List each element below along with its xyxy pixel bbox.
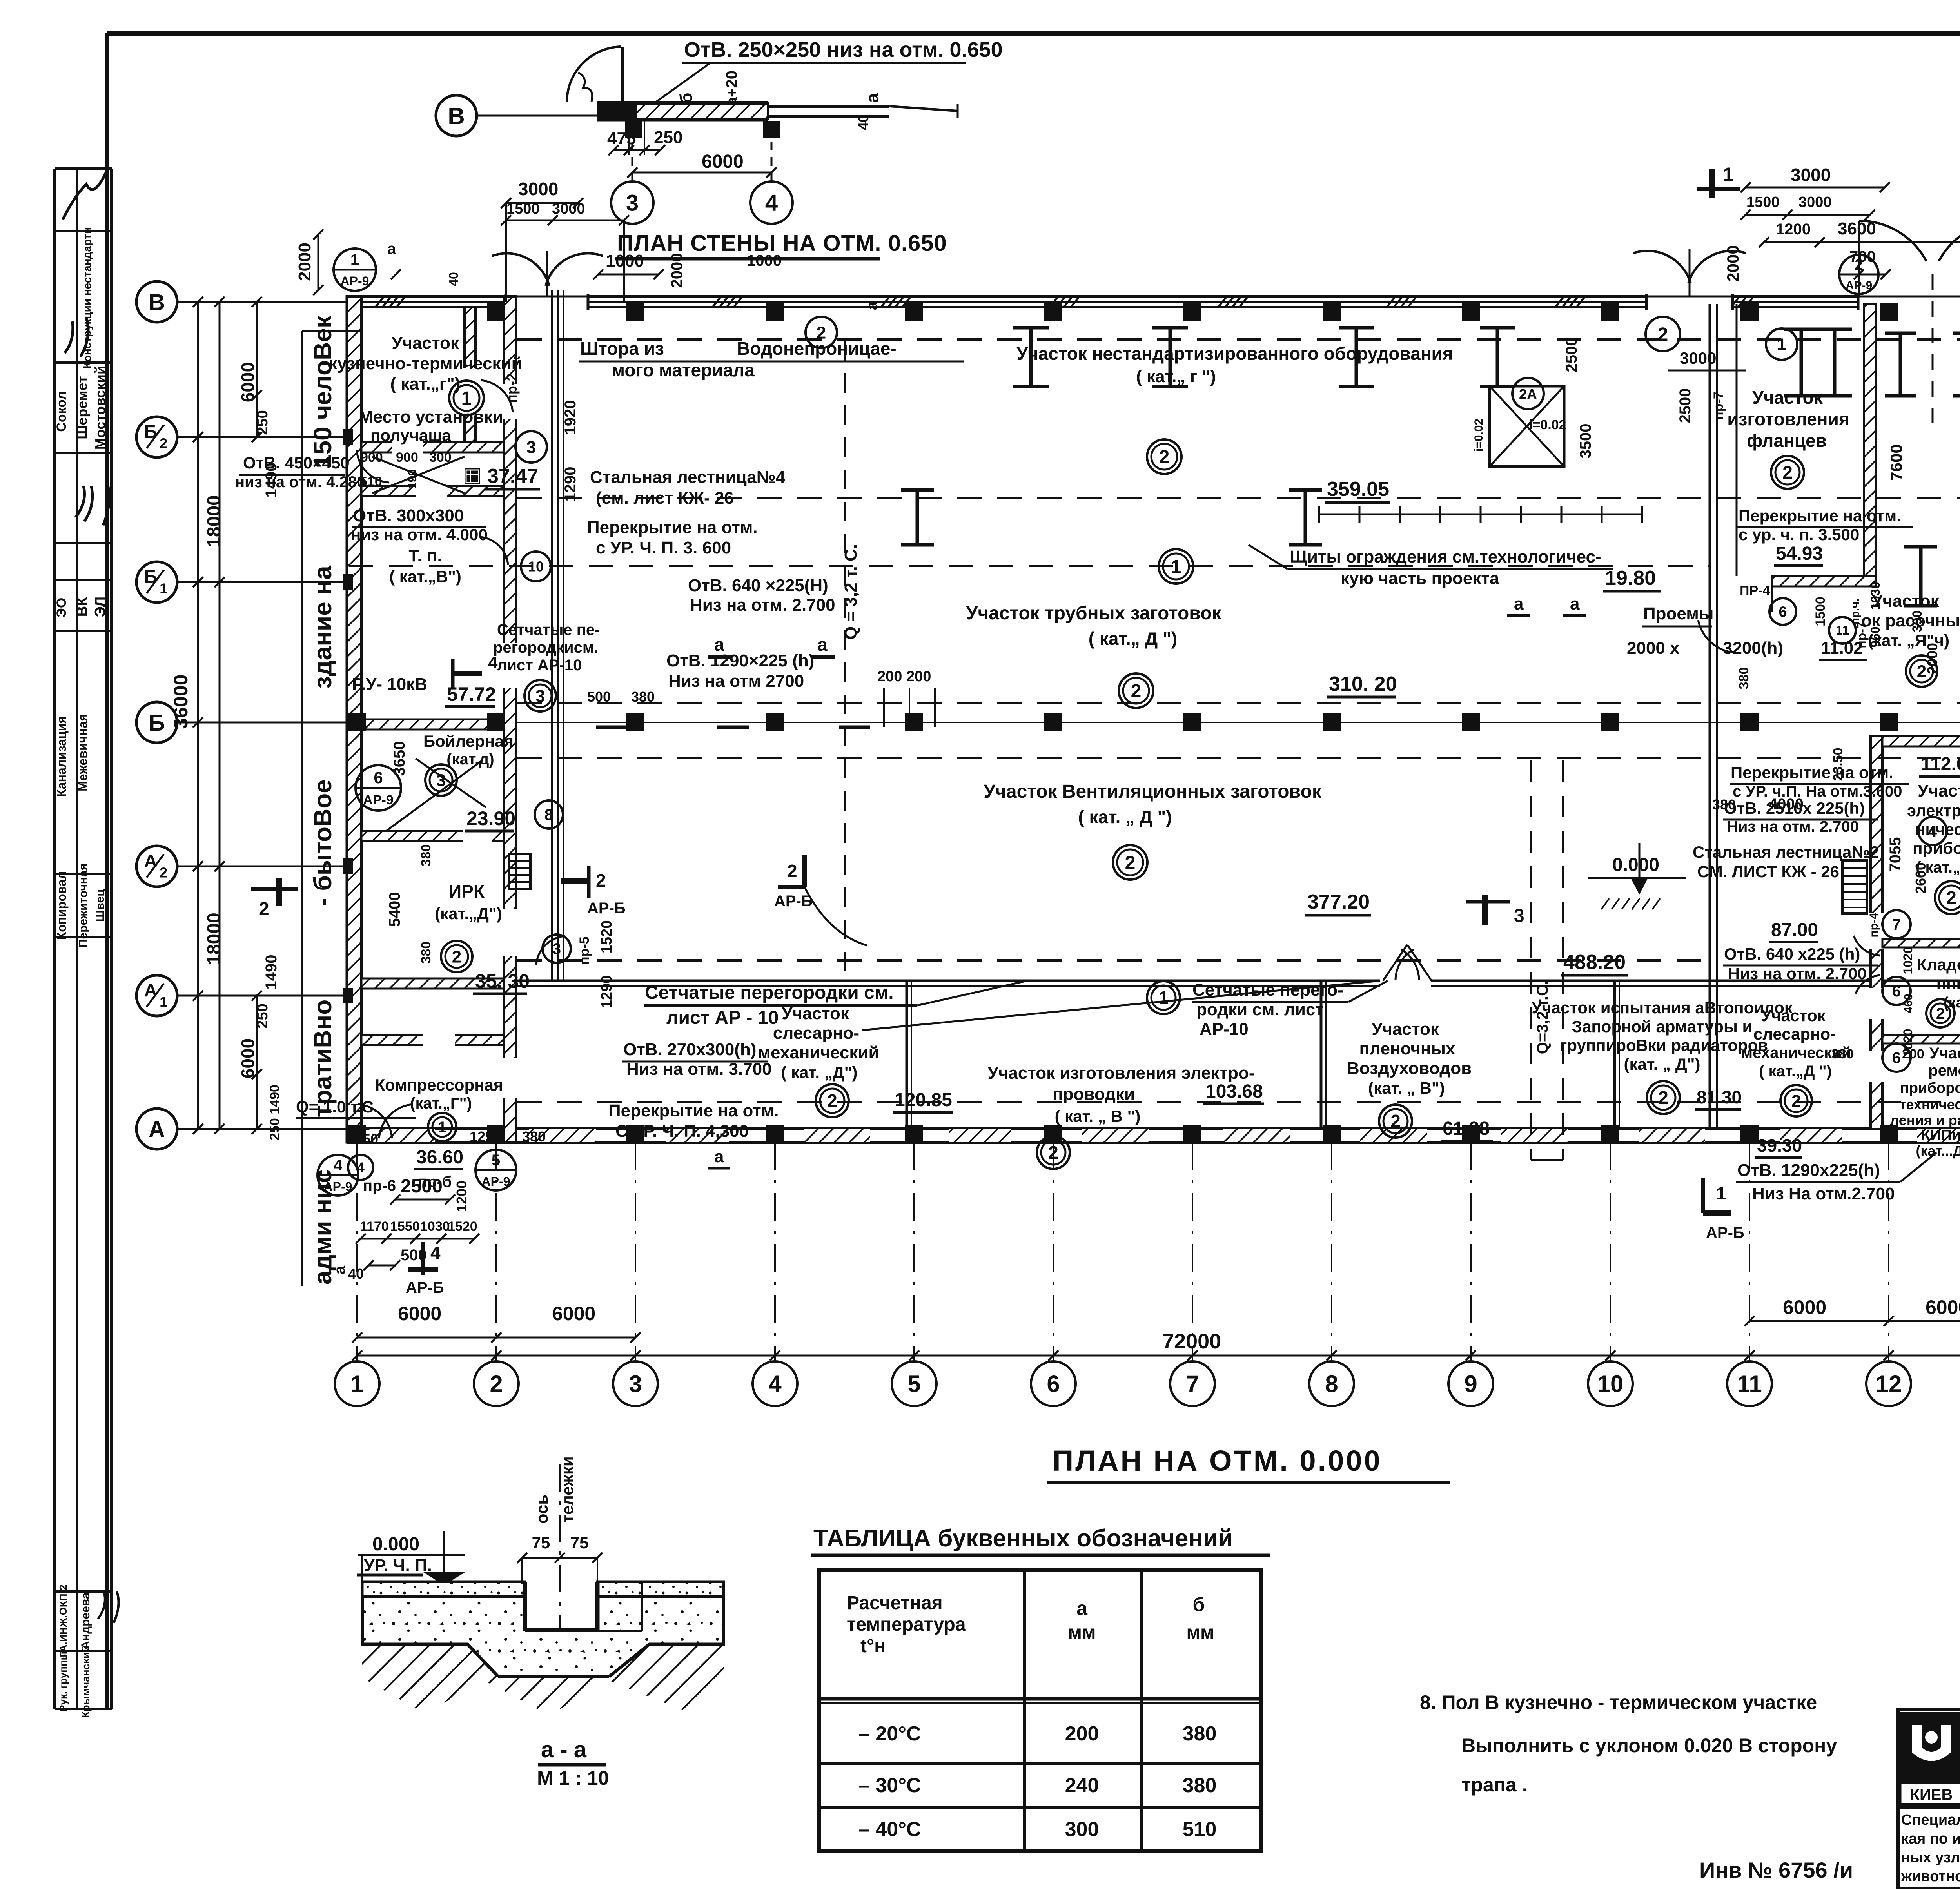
svg-text:лист АР - 10: лист АР - 10 [666, 1007, 779, 1028]
steel ladder 1 [509, 854, 530, 889]
svg-text:Участок Вентиляционных заг: Участок Вентиляционных заготовок [984, 781, 1322, 802]
svg-text:мм: мм [1186, 1622, 1214, 1643]
svg-text:8. Пол В кузнечно - термиче: 8. Пол В кузнечно - термическом участке [1420, 1691, 1817, 1713]
svg-text:6000: 6000 [1926, 1296, 1960, 1318]
svg-text:Б: Б [144, 566, 157, 587]
drain slope square 2А [1490, 386, 1564, 466]
logo КИЕВ [1900, 1712, 1960, 1782]
svg-text:АР-Б: АР-Б [406, 1279, 444, 1296]
svg-text:6: 6 [1892, 1049, 1901, 1067]
svg-text:Компрессорная: Компрессорная [375, 1076, 503, 1094]
svg-text:3: 3 [436, 771, 446, 790]
svg-text:2000: 2000 [668, 253, 686, 288]
svg-text:6000: 6000 [1783, 1296, 1826, 1318]
svg-text:7: 7 [1892, 916, 1901, 933]
svg-text:19.80: 19.80 [1605, 567, 1656, 590]
svg-text:а: а [864, 301, 881, 310]
svg-text:ПР-4: ПР-4 [1740, 583, 1770, 598]
svg-text:1: 1 [1171, 557, 1181, 577]
svg-text:3: 3 [626, 190, 639, 216]
svg-text:87.00: 87.00 [1771, 920, 1818, 940]
svg-text:Б: Б [144, 421, 157, 442]
svg-text:9: 9 [1464, 1371, 1477, 1397]
svg-text:АР-Б: АР-Б [1706, 1224, 1744, 1241]
svg-text:АР-Б: АР-Б [587, 900, 626, 917]
svg-text:ления и разрежения: ления и разрежения [1890, 1112, 1960, 1128]
svg-text:150 челоВек: 150 челоВек [309, 315, 337, 468]
svg-text:2: 2 [1658, 324, 1668, 345]
svg-text:380: 380 [631, 689, 655, 705]
svg-text:Конструкции нестандартн: Конструкции нестандартн [81, 227, 93, 369]
svg-text:а+20: а+20 [723, 71, 740, 106]
svg-text:3000: 3000 [1798, 194, 1832, 210]
centerline ось тележки [559, 1464, 561, 1702]
svg-text:3600: 3600 [1838, 219, 1876, 238]
svg-text:2А: 2А [1519, 386, 1537, 402]
grid circle 8 [1309, 1361, 1354, 1406]
svg-text:Копировал: Копировал [54, 871, 69, 940]
svg-text:Мостовский: Мостовский [92, 366, 108, 450]
svg-text:пр-4: пр-4 [1867, 913, 1880, 937]
svg-text:11: 11 [1737, 1371, 1762, 1397]
left stamp column [53, 169, 56, 1709]
svg-text:приборов тепло: приборов тепло [1900, 1080, 1960, 1096]
svg-text:7600: 7600 [1887, 444, 1906, 481]
left dimension chains [197, 302, 199, 1129]
svg-text:1: 1 [160, 994, 167, 1010]
svg-text:Выполнить с уклоном 0.020: Выполнить с уклоном 0.020 В сторону [1461, 1735, 1837, 1757]
svg-text:1290: 1290 [599, 975, 615, 1009]
svg-text:с УР. Ч. П. 3. 600: с УР. Ч. П. 3. 600 [596, 538, 731, 557]
svg-text:112.60: 112.60 [1921, 754, 1960, 775]
steel ladder 2 [1842, 860, 1867, 913]
svg-text:ЭЛ: ЭЛ [92, 597, 109, 617]
svg-text:2: 2 [160, 436, 167, 452]
svg-text:а: а [1514, 594, 1524, 613]
svg-text:900: 900 [396, 450, 418, 465]
svg-text:500: 500 [587, 689, 611, 705]
svg-text:i=0.02: i=0.02 [1472, 419, 1485, 452]
svg-text:1: 1 [461, 388, 472, 409]
svg-text:120.85: 120.85 [895, 1090, 952, 1111]
svg-text:Участок трубных заготовок: Участок трубных заготовок [966, 603, 1221, 624]
svg-text:температура: температура [847, 1614, 966, 1635]
bottom rooms mesh partition [516, 980, 1960, 982]
svg-text:ных узлов и заготовок для: ных узлов и заготовок для [1901, 1849, 1960, 1866]
svg-text:а - а: а - а [541, 1737, 587, 1762]
svg-text:а: а [1076, 1597, 1088, 1619]
svg-text:б: б [677, 93, 696, 103]
svg-text:В: В [448, 103, 465, 129]
svg-text:2: 2 [490, 1371, 503, 1397]
svg-text:2: 2 [596, 870, 606, 891]
svg-text:Щиты ограждения см.технологиче: Щиты ограждения см.технологичес- [1290, 547, 1601, 566]
svg-text:механический: механический [758, 1043, 879, 1062]
svg-text:ремонта: ремонта [1928, 1062, 1960, 1079]
svg-text:250: 250 [654, 128, 682, 147]
svg-text:ПЛАН СТЕНЫ НА ОТМ. 0.650: ПЛАН СТЕНЫ НА ОТМ. 0.650 [617, 230, 947, 256]
admin horizontal partitions [361, 442, 504, 452]
right rooms walls [1871, 736, 1882, 1129]
svg-text:Запорной арматуры и: Запорной арматуры и [1572, 1017, 1753, 1036]
svg-text:Канализация: Канализация [54, 716, 69, 797]
svg-text:Штора из: Штора из [580, 338, 664, 359]
svg-text:технических даВ.: технических даВ. [1899, 1096, 1960, 1112]
svg-text:Проемы: Проемы [1643, 604, 1713, 623]
svg-text:1: 1 [1723, 163, 1734, 185]
svg-text:1550: 1550 [390, 1219, 420, 1234]
axis circle А/1 [136, 975, 177, 1016]
svg-text:Сетчатые перего-: Сетчатые перего- [1192, 980, 1343, 1000]
svg-text:6: 6 [1047, 1371, 1060, 1397]
svg-text:Низ на отм. 2.700: Низ на отм. 2.700 [1728, 964, 1867, 983]
svg-text:Андреева: Андреева [79, 1592, 92, 1649]
svg-text:1030: 1030 [420, 1219, 450, 1234]
svg-text:пр-7: пр-7 [1711, 392, 1726, 420]
svg-text:приборов: приборов [1913, 839, 1960, 857]
grid circle 6 [1031, 1361, 1076, 1406]
svg-text:2: 2 [259, 899, 269, 920]
svg-text:2000: 2000 [1924, 643, 1940, 674]
svg-text:7: 7 [1186, 1371, 1199, 1397]
svg-text:4: 4 [765, 190, 778, 216]
svg-text:ОтВ. 300х300: ОтВ. 300х300 [353, 506, 464, 525]
svg-text:а: а [714, 634, 724, 655]
svg-text:2: 2 [1159, 447, 1170, 468]
svg-text:380: 380 [419, 942, 434, 964]
svg-text:1200: 1200 [1776, 221, 1811, 238]
svg-text:3: 3 [526, 437, 536, 457]
svg-text:5: 5 [492, 1152, 500, 1169]
svg-text:а: а [714, 1147, 724, 1166]
svg-text:10: 10 [528, 559, 544, 575]
svg-text:36000: 36000 [170, 674, 192, 729]
svg-text:Участок нестандартизированно: Участок нестандартизированного оборудова… [1016, 343, 1453, 364]
axis circle В (top detail) [436, 95, 477, 136]
svg-text:( кат.„Д "): ( кат.„Д ") [1759, 1063, 1832, 1080]
svg-text:4: 4 [488, 653, 498, 672]
left wall [347, 296, 361, 1142]
building outer walls [347, 295, 1960, 298]
flange room walls [1864, 304, 1876, 576]
svg-text:61.88: 61.88 [1443, 1118, 1490, 1139]
svg-text:мм: мм [1068, 1622, 1096, 1643]
sheet frame [107, 31, 1960, 36]
svg-text:Шеремет: Шеремет [74, 376, 90, 439]
svg-text:3500: 3500 [1577, 424, 1594, 459]
svg-text:АР-9: АР-9 [363, 793, 393, 807]
svg-text:фланцев: фланцев [1747, 430, 1827, 451]
svg-text:2: 2 [1125, 853, 1136, 873]
svg-text:(кат...Д"): (кат...Д") [1916, 1143, 1960, 1159]
svg-text:1500: 1500 [1746, 194, 1780, 210]
svg-text:М 1 : 10: М 1 : 10 [537, 1767, 609, 1789]
svg-text:Низ на отм 2700: Низ на отм 2700 [668, 671, 804, 691]
svg-text:ЭО: ЭО [54, 598, 69, 618]
svg-text:1200: 1200 [454, 1181, 470, 1212]
svg-text:1: 1 [1158, 987, 1169, 1008]
svg-text:( кат.„ Д "): ( кат.„ Д ") [1089, 628, 1177, 649]
svg-text:(кат„Д"): (кат„Д") [1944, 994, 1960, 1011]
svg-text:здание на: здание на [309, 566, 337, 689]
svg-text:Участок: Участок [1929, 1045, 1960, 1062]
svg-text:18000: 18000 [204, 495, 225, 547]
svg-text:КИЕВ: КИЕВ [1910, 1786, 1953, 1804]
svg-text:– 20°С: – 20°С [858, 1722, 921, 1745]
svg-text:6000: 6000 [238, 1038, 258, 1078]
svg-text:ОтВ. 640 х225 (h): ОтВ. 640 х225 (h) [1724, 945, 1860, 963]
svg-text:23.50: 23.50 [1831, 748, 1846, 781]
svg-text:проводки: проводки [1053, 1085, 1135, 1104]
svg-text:Низ на отм. 2.700: Низ на отм. 2.700 [1727, 818, 1859, 835]
svg-text:3: 3 [1514, 905, 1524, 926]
svg-text:Специализированная мастерс-: Специализированная мастерс- [1901, 1812, 1960, 1828]
svg-text:животноводческих ферм с: животноводческих ферм с [1901, 1868, 1960, 1885]
corridor wall [1709, 304, 1711, 1129]
axis circle Б/2 [136, 417, 177, 457]
axis circle А/2 [136, 846, 177, 887]
svg-text:с ур. ч. п. 3.500: с ур. ч. п. 3.500 [1739, 525, 1859, 544]
svg-text:300: 300 [1065, 1818, 1099, 1841]
svg-text:слесарно-: слесарно- [773, 1023, 859, 1043]
svg-text:Сетчатые перегородки см.: Сетчатые перегородки см. [645, 982, 894, 1003]
svg-text:ОтВ. 2510х 225(h): ОтВ. 2510х 225(h) [1724, 799, 1865, 817]
svg-text:510: 510 [1183, 1818, 1217, 1841]
svg-text:3200(h): 3200(h) [1723, 639, 1783, 658]
svg-text:Перекрытие на отм.: Перекрытие на отм. [587, 518, 758, 537]
svg-text:6000: 6000 [398, 1303, 441, 1325]
svg-text:( кат. „Д"): ( кат. „Д") [781, 1063, 857, 1082]
svg-text:Стальная лестница№2: Стальная лестница№2 [1693, 843, 1879, 861]
svg-text:кая по изготовлению монтаж: кая по изготовлению монтаж- [1901, 1831, 1960, 1847]
svg-text:(см. лист КЖ- 26: (см. лист КЖ- 26 [596, 488, 734, 508]
svg-text:Перекрытие на отм.: Перекрытие на отм. [1731, 763, 1893, 782]
svg-text:1000: 1000 [747, 252, 782, 269]
svg-text:Стальная лестница№4: Стальная лестница№4 [590, 468, 786, 487]
svg-text:КИПиЯ: КИПиЯ [1921, 1127, 1960, 1143]
svg-text:2: 2 [1855, 257, 1863, 273]
svg-text:54.93: 54.93 [1776, 543, 1823, 564]
svg-text:ИРК: ИРК [448, 881, 485, 902]
svg-text:кузнечно-термический: кузнечно-термический [328, 354, 522, 373]
svg-text:39.30: 39.30 [1757, 1135, 1802, 1156]
grid circle 12 [1866, 1361, 1911, 1406]
svg-text:изготовления: изготовления [1727, 409, 1849, 429]
svg-text:18000: 18000 [204, 913, 225, 965]
svg-text:ОтВ. 270х300(h): ОтВ. 270х300(h) [623, 1040, 756, 1059]
svg-text:11: 11 [1836, 623, 1849, 637]
svg-text:УР. Ч. П.: УР. Ч. П. [364, 1556, 432, 1575]
svg-text:5400: 5400 [386, 892, 403, 927]
svg-text:(кат.д): (кат.д) [446, 751, 494, 768]
svg-text:6000: 6000 [238, 362, 258, 402]
svg-text:Сетчатые пе-: Сетчатые пе- [497, 621, 600, 639]
svg-text:40: 40 [446, 272, 461, 286]
svg-text:ТАБЛИЦА буквенных обозначени: ТАБЛИЦА буквенных обозначений [813, 1525, 1233, 1552]
svg-text:пр.ч.: пр.ч. [1849, 599, 1861, 624]
svg-text:6000: 6000 [702, 151, 744, 172]
svg-text:2: 2 [817, 323, 826, 342]
svg-text:250: 250 [254, 1003, 271, 1028]
svg-text:ОтВ. 1290х225(h): ОтВ. 1290х225(h) [1737, 1161, 1880, 1180]
svg-text:8: 8 [544, 806, 553, 824]
svg-text:с УР. ч.П. На отм.3.600: с УР. ч.П. На отм.3.600 [1733, 783, 1902, 800]
svg-text:1250: 1250 [470, 1129, 501, 1145]
svg-text:– 40°С: – 40°С [858, 1818, 921, 1841]
axis circle Б [136, 702, 177, 743]
svg-text:Кладовая: Кладовая [1916, 955, 1960, 974]
svg-text:Место установки: Место установки [359, 407, 503, 426]
svg-text:1250: 1250 [347, 1131, 378, 1147]
svg-text:2000 х: 2000 х [1627, 639, 1680, 658]
axis Б line [516, 722, 1960, 723]
svg-text:390: 390 [1910, 610, 1925, 633]
svg-text:2: 2 [787, 861, 797, 881]
svg-text:3000: 3000 [518, 179, 558, 199]
svg-text:ОтВ. 640 ×225(Н): ОтВ. 640 ×225(Н) [688, 576, 828, 595]
svg-text:пр-6: пр-6 [363, 1177, 396, 1194]
svg-text:пр-б: пр-б [418, 1173, 452, 1190]
svg-text:12: 12 [1876, 1371, 1902, 1397]
svg-text:2: 2 [1782, 462, 1793, 483]
svg-text:3: 3 [629, 1371, 642, 1397]
svg-text:1030: 1030 [1868, 582, 1882, 610]
svg-text:10: 10 [1597, 1371, 1624, 1397]
grid circle 7 [1170, 1361, 1215, 1406]
svg-text:2: 2 [1791, 1091, 1801, 1111]
svg-text:ВК: ВК [74, 597, 91, 617]
svg-text:Швец: Швец [94, 889, 107, 922]
column squares rows [348, 713, 366, 731]
svg-text:Крымчанский: Крымчанский [80, 1646, 92, 1718]
svg-text:1020: 1020 [1901, 946, 1915, 974]
svg-text:75: 75 [570, 1533, 589, 1552]
svg-text:1490: 1490 [263, 955, 280, 990]
svg-text:( кат. „ Д "): ( кат. „ Д ") [1078, 807, 1172, 827]
svg-text:7055: 7055 [1887, 837, 1904, 872]
svg-text:0.000: 0.000 [1612, 855, 1659, 875]
svg-text:Участок: Участок [1918, 781, 1960, 800]
svg-text:б: б [1193, 1593, 1205, 1615]
svg-text:Q = 3,2 т. С.: Q = 3,2 т. С. [841, 544, 860, 640]
svg-text:трапа .: трапа . [1461, 1774, 1528, 1796]
svg-text:Перекрытие на отм.: Перекрытие на отм. [608, 1101, 779, 1120]
grid circle 9 [1448, 1361, 1493, 1406]
svg-text:АР-9: АР-9 [1846, 279, 1872, 292]
svg-text:i=0.02: i=0.02 [1529, 417, 1566, 432]
svg-text:Сокол: Сокол [54, 391, 69, 432]
svg-text:пр-2: пр-2 [504, 373, 520, 403]
svg-text:Участок испытания аВтопоилок: Участок испытания аВтопоилок [1532, 998, 1793, 1017]
svg-text:75: 75 [532, 1533, 550, 1552]
svg-text:мого материала: мого материала [612, 360, 755, 380]
svg-text:Рук. группы: Рук. группы [57, 1651, 69, 1712]
svg-text:1: 1 [1716, 1183, 1726, 1203]
svg-text:АР-Б: АР-Б [774, 893, 813, 910]
svg-text:Р.У- 10кВ: Р.У- 10кВ [352, 675, 427, 694]
svg-text:Участок: Участок [1761, 1006, 1826, 1025]
svg-text:1: 1 [438, 1119, 446, 1136]
svg-text:Участок изготовления электро: Участок изготовления электро- [987, 1063, 1254, 1083]
svg-text:200: 200 [1065, 1722, 1099, 1745]
svg-text:Низ на отм. 2.700: Низ на отм. 2.700 [690, 595, 835, 615]
wall section band [597, 102, 636, 120]
svg-text:40: 40 [855, 114, 871, 130]
svg-text:ПЛАН НА ОТМ. 0.000: ПЛАН НА ОТМ. 0.000 [1053, 1444, 1382, 1477]
svg-text:( кат.„ г "): ( кат.„ г ") [1136, 367, 1216, 386]
svg-text:Бойлерная: Бойлерная [423, 732, 514, 750]
vertical partitions of bottom rooms [906, 981, 908, 1129]
svg-text:Участок: Участок [1372, 1020, 1439, 1039]
svg-text:ппц: ппц [1936, 974, 1960, 992]
floor slab with pit [362, 1582, 525, 1597]
door swing arcs [492, 253, 549, 286]
svg-text:а: а [863, 93, 882, 103]
axis circle Б/1 [136, 562, 177, 602]
svg-text:40: 40 [348, 1266, 364, 1282]
svg-text:1290: 1290 [562, 467, 579, 502]
axis circle А [136, 1109, 177, 1149]
svg-text:С УР. Ч. П. 4,300: С УР. Ч. П. 4,300 [615, 1121, 749, 1141]
svg-text:4: 4 [768, 1371, 782, 1397]
svg-text:2500: 2500 [1677, 388, 1694, 423]
svg-text:тележки: тележки [558, 1456, 577, 1522]
svg-text:(кат. „ Д"): (кат. „ Д") [1624, 1055, 1700, 1073]
svg-text:- бытоВое: - бытоВое [309, 779, 337, 906]
svg-text:35. 30: 35. 30 [475, 970, 530, 992]
svg-text:310. 20: 310. 20 [1329, 673, 1397, 695]
grid circle 4 (detail) [750, 181, 793, 224]
svg-text:пр-7: пр-7 [1855, 622, 1869, 648]
svg-text:2600: 2600 [1913, 862, 1929, 894]
svg-text:Расчетная: Расчетная [847, 1593, 943, 1613]
svg-text:6: 6 [1779, 604, 1787, 620]
grid circle 3 [613, 1361, 658, 1406]
svg-text:37.47: 37.47 [487, 465, 538, 488]
svg-text:3: 3 [535, 686, 545, 706]
grid circle 1 [335, 1361, 379, 1406]
svg-text:а: а [387, 240, 396, 258]
svg-text:пленочных: пленочных [1359, 1039, 1455, 1058]
axis circle В [136, 281, 177, 322]
svg-text:регородкисм.: регородкисм. [493, 639, 599, 656]
boiler/IRK partitions [431, 719, 504, 720]
svg-text:23.90: 23.90 [466, 807, 515, 829]
svg-text:( кат.„В"): ( кат.„В") [389, 567, 461, 586]
svg-text:Б: Б [149, 710, 165, 736]
svg-text:103.68: 103.68 [1205, 1081, 1263, 1102]
svg-text:1: 1 [350, 251, 359, 269]
svg-text:960: 960 [1868, 626, 1882, 647]
svg-text:377.20: 377.20 [1307, 891, 1370, 913]
svg-text:(кат. „ В"): (кат. „ В") [1368, 1079, 1445, 1097]
ground hatch [362, 1644, 724, 1715]
svg-text:380: 380 [522, 1129, 546, 1145]
svg-text:Участок: Участок [1752, 387, 1823, 408]
svg-text:1: 1 [160, 581, 167, 597]
svg-text:2: 2 [452, 947, 461, 966]
grid circle 11 [1727, 1361, 1772, 1406]
svg-text:Межевичная: Межевичная [76, 714, 90, 791]
svg-text:36.60: 36.60 [416, 1147, 463, 1168]
vertical channel dashed [1530, 760, 1532, 1160]
svg-text:2500: 2500 [1563, 338, 1580, 372]
svg-text:2: 2 [827, 1091, 837, 1111]
grid circle 10 [1588, 1361, 1633, 1406]
svg-text:1520: 1520 [448, 1219, 477, 1234]
svg-text:250: 250 [254, 410, 271, 435]
svg-text:3000: 3000 [552, 201, 585, 217]
